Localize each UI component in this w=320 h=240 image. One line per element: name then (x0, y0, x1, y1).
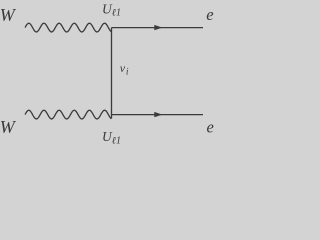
svg-text:e: e (207, 117, 214, 136)
svg-text:ν: ν (120, 61, 126, 75)
svg-text:e: e (206, 5, 213, 24)
svg-text:W: W (0, 5, 17, 25)
svg-text:ℓ1: ℓ1 (112, 135, 121, 146)
svg-text:ℓ1: ℓ1 (112, 8, 121, 19)
svg-text:i: i (126, 67, 129, 77)
svg-text:W: W (0, 117, 17, 137)
